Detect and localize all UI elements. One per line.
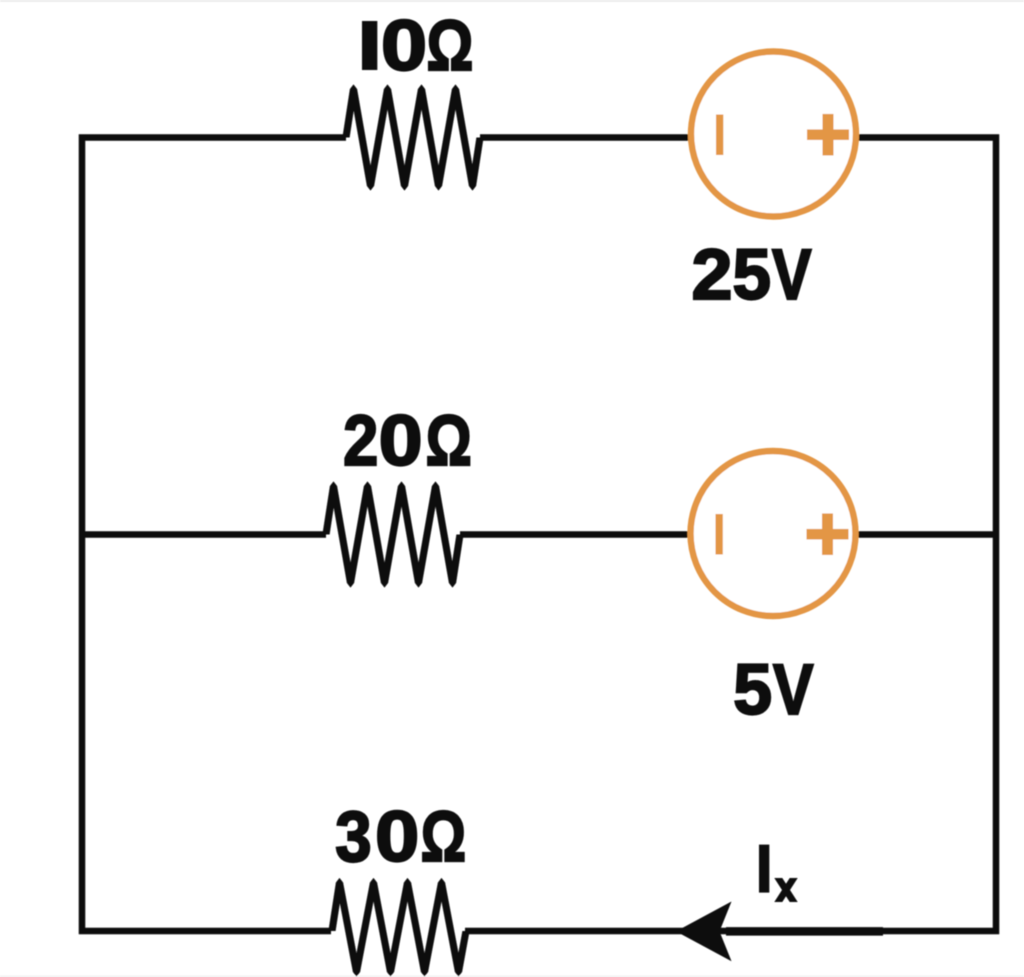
label Ix : I bar — [759, 845, 769, 893]
resistor R3 30ohm — [328, 878, 469, 977]
svg-text:0: 0 — [381, 7, 427, 86]
svg-text:Ω: Ω — [426, 7, 473, 86]
svg-text:2: 2 — [343, 402, 378, 481]
edge artifact bottom — [0, 976, 1024, 977]
arrow shaft — [726, 927, 883, 936]
resistor R2 20ohm — [322, 481, 463, 587]
svg-text:Ω: Ω — [421, 798, 467, 877]
svg-text:0: 0 — [379, 402, 423, 481]
label 10ohm : digit 1 drawn as plain bar, then 0 and ohm glyphs — [362, 21, 377, 70]
edge artifact top — [0, 0, 1024, 2]
voltage source V1 25V — [691, 52, 856, 217]
minus terminal bar — [716, 115, 723, 156]
wire right loop (top rail right + right vertical + bottom rail right) — [465, 138, 996, 932]
wire left loop (top rail left + left vertical + bottom rail left) — [82, 138, 346, 932]
svg-text:0: 0 — [375, 798, 419, 877]
svg-text:2: 2 — [692, 236, 733, 315]
svg-text:5: 5 — [733, 651, 772, 730]
arrowhead (points left) — [676, 902, 732, 962]
svg-text:3: 3 — [335, 798, 371, 877]
minus terminal bar — [716, 514, 723, 555]
svg-text:Ω: Ω — [426, 402, 472, 481]
resistor R1 10ohm — [342, 84, 483, 190]
svg-text:5: 5 — [733, 236, 772, 315]
wire top rail middle segment — [480, 134, 700, 141]
wire middle rail right segment — [460, 531, 996, 538]
plus terminal — [807, 529, 849, 540]
svg-text:V: V — [773, 651, 814, 730]
voltage source V2 5V — [691, 451, 856, 616]
wire middle rail left segment — [83, 531, 326, 538]
svg-text:V: V — [772, 236, 812, 315]
label Ix : subscript x drawn as crossing bars — [774, 878, 797, 902]
plus terminal — [807, 129, 849, 140]
